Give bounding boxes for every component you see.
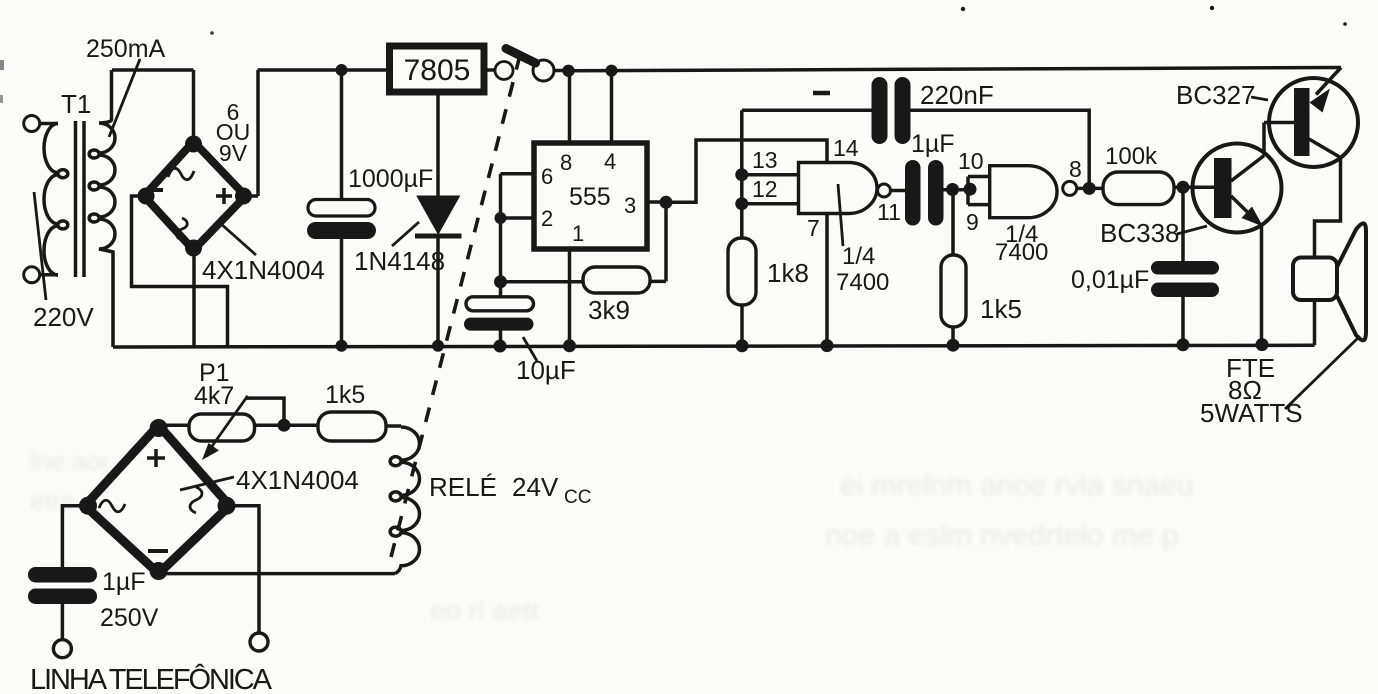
svg-text:2: 2 <box>541 206 553 231</box>
node junction pin7 ground <box>821 339 834 352</box>
speaker FTE <box>1293 223 1366 345</box>
capacitor C5 0.01uF <box>1151 187 1219 351</box>
svg-text:BC338: BC338 <box>1100 218 1180 248</box>
svg-text:7400: 7400 <box>836 269 889 296</box>
wire top rail middle segment <box>258 68 390 72</box>
svg-text:eo rl aett: eo rl aett <box>430 595 539 626</box>
wire bridge B1 top to rail <box>192 70 196 146</box>
wire NAND1 pin7 ground <box>825 214 829 347</box>
transistor Q1 BC338 <box>1193 123 1282 352</box>
svg-text:12: 12 <box>752 176 778 202</box>
pointer line BC327 <box>1251 97 1268 100</box>
node junction pin3 <box>660 196 673 209</box>
node junction NAND2 input tie <box>964 183 977 196</box>
wire NAND1 input net <box>742 110 872 238</box>
svg-text:CC: CC <box>564 487 591 508</box>
wire top rail left segment <box>112 68 194 72</box>
terminal phone line left <box>53 640 71 658</box>
wire bridge B1 bottom down <box>192 250 196 347</box>
regulator U2 7805 <box>390 46 485 92</box>
svg-text:100k: 100k <box>1105 143 1158 170</box>
gate U3b NAND 1/4 7400 <box>990 166 1077 218</box>
svg-text:8: 8 <box>1069 156 1082 182</box>
svg-text:10: 10 <box>958 148 984 174</box>
node junction pin12 <box>735 197 748 210</box>
wire pin13 stub <box>742 173 799 177</box>
svg-text:RELÉ: RELÉ <box>429 472 497 502</box>
wire bridge B1 left step to ground <box>132 196 228 347</box>
svg-text:250mA: 250mA <box>86 35 166 63</box>
svg-text:1k5: 1k5 <box>980 294 1022 324</box>
bridge rectifier B2 4X1N4004 <box>79 419 236 580</box>
svg-text:6: 6 <box>541 164 553 189</box>
svg-text:3k9: 3k9 <box>588 295 630 325</box>
pointer line 4X1N4004 B1 <box>220 223 256 255</box>
svg-text:220V: 220V <box>33 302 94 332</box>
svg-text:BC327: BC327 <box>1176 80 1256 110</box>
potentiometer P1 4k7 <box>159 396 318 460</box>
transformer T1 <box>24 70 115 347</box>
svg-text:8: 8 <box>560 150 572 175</box>
svg-text:5WATTS: 5WATTS <box>1200 398 1303 428</box>
svg-text:1µF: 1µF <box>102 568 146 596</box>
pointer line 10uF <box>523 337 537 361</box>
wire 555 pin6 pin2 tie <box>501 174 535 297</box>
wire 555 pin4 <box>610 71 614 143</box>
pointer line 4X1N4004 B2 <box>180 477 234 490</box>
capacitor C2 10uF <box>464 297 534 353</box>
svg-text:220nF: 220nF <box>920 80 994 110</box>
wire 555 pin3 <box>647 200 666 204</box>
speck left edge <box>0 60 4 70</box>
svg-text:1µF: 1µF <box>911 130 955 158</box>
wire NAND2 input bracket <box>968 177 990 205</box>
svg-text:1/4: 1/4 <box>842 243 875 270</box>
svg-text:11: 11 <box>877 199 901 225</box>
wire pin12 stub <box>742 202 799 206</box>
pointer line gate1 <box>838 184 843 246</box>
svg-text:7400: 7400 <box>995 239 1048 266</box>
wire NAND1 out to 1uF <box>891 189 906 193</box>
svg-text:10µF: 10µF <box>516 355 576 385</box>
capacitor C3 220nF <box>872 77 911 144</box>
capacitor C6 1uF 250V <box>28 567 97 640</box>
wire bridge B2 right to terminal <box>230 506 259 633</box>
svg-text:7: 7 <box>807 215 820 241</box>
relay coil RELE 24Vcc <box>390 427 419 574</box>
speck top right 1 <box>961 7 965 11</box>
svg-text:ei mrelnm anoe rvla snaeu: ei mrelnm anoe rvla snaeu <box>840 469 1194 502</box>
resistor R5 1k5 <box>318 412 401 441</box>
svg-text:24V: 24V <box>512 472 559 502</box>
wire 555 pin1 to ground <box>568 249 572 346</box>
svg-text:9: 9 <box>966 209 979 235</box>
resistor R1 3k9 <box>501 202 667 293</box>
node junction pin2-3k9 <box>494 275 507 288</box>
svg-text:4: 4 <box>604 149 616 174</box>
wire 1uF to NAND2 inputs <box>944 188 969 192</box>
svg-text:7805: 7805 <box>404 54 471 87</box>
resistor R4 100k <box>1103 172 1174 205</box>
svg-text:lne aor: lne aor <box>30 446 110 476</box>
svg-text:4X1N4004: 4X1N4004 <box>236 465 359 495</box>
dashed line switch to relay <box>391 55 520 557</box>
pointer line 220V <box>34 192 46 300</box>
wire bridge B1 right to rail riser <box>246 70 259 196</box>
wire bridge B2 bottom to relay <box>159 572 395 576</box>
diode D1 1N4148 <box>415 92 462 352</box>
pointer line 250mA <box>109 59 140 137</box>
label minus sign <box>813 91 830 96</box>
wire 555 pin3 to NAND pin14 <box>666 140 827 202</box>
gate U3a NAND 1/4 7400 <box>799 163 891 214</box>
pointer line 1N4148 <box>392 222 419 246</box>
wire NAND2 output <box>1077 187 1103 191</box>
node junction 555 pin4 <box>606 65 618 77</box>
node junction base-cap <box>1177 181 1190 194</box>
svg-text:T1: T1 <box>61 89 91 119</box>
transistor Q2 BC327 <box>1264 68 1358 258</box>
wire bridge B2 left to 1uF <box>62 506 85 567</box>
svg-text:LINHA TELEFÔNICA: LINHA TELEFÔNICA <box>30 662 273 694</box>
svg-text:0,01µF: 0,01µF <box>1071 266 1149 294</box>
svg-text:14: 14 <box>833 135 859 161</box>
speck mid right <box>1343 22 1347 26</box>
capacitor 1000uF <box>307 70 376 352</box>
IC U1 555 <box>534 143 647 249</box>
node junction 1k5 top <box>946 183 959 196</box>
wire 555 pin8 <box>568 71 572 143</box>
svg-text:3: 3 <box>624 193 636 218</box>
speck left edge 2 <box>0 95 3 103</box>
resistor R2 1k8 <box>728 238 756 352</box>
wire bottom ground rail <box>113 345 1315 347</box>
svg-text:1k8: 1k8 <box>767 258 809 288</box>
node junction pin1 ground <box>563 339 576 352</box>
node junction switch output <box>562 65 574 77</box>
svg-text:noe a eslm nvedrtelo me p: noe a eslm nvedrtelo me p <box>825 519 1179 552</box>
node junction pin13 <box>735 168 748 181</box>
node junction pin2 <box>495 212 507 224</box>
svg-text:1k5: 1k5 <box>325 381 365 409</box>
ghost bleed-through text <box>30 446 1194 626</box>
wire top rail right segment <box>569 68 1342 71</box>
capacitor C4 1uF <box>905 160 944 226</box>
pointer line BC338 <box>1177 226 1207 234</box>
svg-text:1N4148: 1N4148 <box>354 246 445 276</box>
node junction 1000uF top <box>336 64 348 76</box>
switch S1 <box>484 49 563 82</box>
svg-text:250V: 250V <box>100 604 159 632</box>
svg-text:555: 555 <box>569 183 611 211</box>
svg-text:13: 13 <box>752 147 778 173</box>
svg-text:9V: 9V <box>219 140 248 166</box>
svg-text:4X1N4004: 4X1N4004 <box>202 255 325 285</box>
terminal phone line right <box>250 633 268 651</box>
node junction NAND2 out <box>1083 182 1096 195</box>
svg-text:4k7: 4k7 <box>194 382 234 410</box>
svg-text:1000µF: 1000µF <box>348 165 433 193</box>
speck near 250mA <box>210 31 214 35</box>
wire 220nF to NAND2 output <box>911 110 1090 188</box>
svg-text:1: 1 <box>572 221 584 246</box>
pointer line speaker <box>1285 336 1360 409</box>
bridge rectifier B1 4X1N4004 <box>138 136 253 257</box>
wire 100k to BC338 base <box>1174 185 1214 189</box>
resistor R3 1k5 <box>941 190 966 352</box>
speck top right 2 <box>1210 6 1214 10</box>
